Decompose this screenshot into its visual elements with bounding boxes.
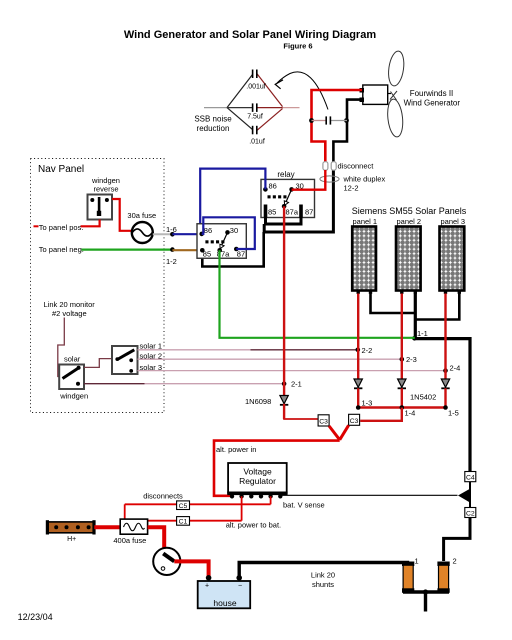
V sense junction triangle (458, 489, 470, 502)
svg-text:house: house (213, 598, 236, 608)
relay U1 coil dashes (268, 195, 287, 198)
white duplex ellipse (320, 176, 339, 182)
wire: junction down to relay2 loop (202, 232, 263, 267)
wire: windgen row to 2-1 (84, 383, 145, 385)
svg-text:.001uf: .001uf (246, 84, 266, 91)
wire: panel3 red down (444, 294, 446, 381)
wire: relay2 86-87 blue jumper (202, 217, 255, 249)
svg-text:85: 85 (268, 208, 276, 217)
wire: panel2 red down (401, 294, 403, 381)
svg-text:disconnect: disconnect (338, 162, 375, 171)
wire: solar1 row to 2-2 (138, 349, 251, 351)
wire: 1N6098 to C3a (284, 407, 317, 419)
wire: solar2 row to 2-3 (138, 358, 402, 360)
relay U1 box (261, 179, 315, 217)
svg-text:Fourwinds II: Fourwinds II (410, 89, 454, 98)
node 1-6 (170, 232, 175, 237)
propeller blade upper (387, 50, 406, 87)
svg-text:1: 1 (415, 557, 419, 566)
svg-text:To panel neg.: To panel neg. (39, 245, 84, 254)
wire: C5 row down to fuse left (124, 504, 126, 520)
svg-text:Regulator: Regulator (239, 476, 276, 486)
svg-text:windgen: windgen (59, 392, 88, 401)
svg-text:Wind Generator and Solar Panel: Wind Generator and Solar Panel Wiring Di… (124, 29, 376, 41)
regulator bottom bar (227, 492, 287, 496)
diode D1 1N6098 (280, 396, 288, 420)
wire: C3a diagonal to V junction (329, 426, 340, 440)
wire: house - to shunt1 (thick black) (239, 563, 407, 578)
relay U2 switch arm (222, 232, 228, 245)
relay U2 coil dashes (205, 240, 224, 243)
diode D3 (398, 379, 406, 408)
svg-text:alt. power in: alt. power in (216, 445, 256, 454)
wire: alt power in row (214, 441, 340, 496)
wire: relay U1 85-87 loop (black) (266, 217, 302, 224)
noise capacitor leads (312, 120, 327, 122)
svg-text:bat. V sense: bat. V sense (283, 501, 325, 510)
wire: selector to solar selector (dark red) (84, 359, 112, 368)
svg-text:SSB noise: SSB noise (194, 115, 232, 124)
hub line (388, 93, 391, 95)
wire: relay1 86 blue loop to relay2 (200, 169, 265, 234)
diode D4 (441, 379, 449, 408)
svg-text:panel 1: panel 1 (353, 217, 378, 226)
svg-text:2-4: 2-4 (450, 364, 461, 373)
wire: switch to 30a fuse (red) (112, 199, 132, 231)
svg-text:30: 30 (230, 226, 238, 235)
wire: diode output row (358, 406, 445, 408)
node shunt bottom (423, 589, 428, 594)
relay U2 pin 86 (199, 232, 204, 237)
node 2-1 (282, 381, 287, 386)
svg-text:−: − (238, 583, 242, 590)
svg-text:C2: C2 (466, 511, 475, 518)
svg-text:Link 20: Link 20 (311, 571, 335, 580)
generator pin + (360, 88, 365, 93)
noise capacitor bars (326, 116, 330, 124)
svg-text:solar: solar (64, 355, 81, 364)
wire: switch to house battery + (thick red) (174, 561, 208, 576)
node capacitor left (309, 118, 314, 123)
svg-text:reduction: reduction (197, 124, 230, 133)
red tick left of To panel pos (34, 225, 39, 227)
wire: to panel neg (green) (82, 249, 173, 251)
svg-text:C3: C3 (350, 418, 359, 425)
relay U1 pin 87a (282, 204, 287, 209)
connector C4 (465, 472, 476, 482)
connector C5 (177, 501, 190, 510)
wire: 1-2 to relay2 85 (brown) (172, 249, 202, 251)
svg-text:Link 20 monitor: Link 20 monitor (44, 300, 96, 309)
svg-text:#2 voltage: #2 voltage (52, 309, 87, 318)
svg-text:To panel pos.: To panel pos. (39, 223, 84, 232)
wire: disconnect red down to relay1 30 (292, 170, 326, 190)
wire: fuse to battery switch (thick red) (148, 527, 165, 554)
nav panel dashed border (31, 159, 165, 413)
wire: panel2 black down to 1-1 (414, 294, 417, 339)
wire: monitor to selector (dark red) (58, 318, 65, 377)
svg-text:C1: C1 (179, 519, 188, 526)
wire: fuse to 1-6 node (gray) (153, 233, 173, 235)
svg-text:2: 2 (453, 557, 457, 566)
solar panel 3 (440, 227, 465, 291)
node 1-3 (356, 405, 361, 410)
wire: panel1 black to panel2 black (371, 294, 416, 314)
SSB mid wire black (227, 107, 252, 109)
400a fuse (120, 519, 147, 534)
relay U1 pin 85 stub (264, 205, 268, 218)
SSB diamond edges (227, 75, 253, 108)
wire: relay1 87a red down (283, 206, 285, 396)
svg-text:1N5402: 1N5402 (410, 393, 436, 402)
relay U1 pin 30 (289, 187, 294, 192)
node 1-5 (443, 405, 448, 410)
node 2-2 (356, 348, 361, 353)
wire: green negative bus (220, 250, 415, 337)
node green-black junction (412, 336, 417, 341)
svg-text:relay: relay (277, 170, 294, 179)
svg-text:C3: C3 (319, 419, 328, 426)
svg-text:2-3: 2-3 (406, 355, 417, 364)
svg-text:Figure 6: Figure 6 (283, 42, 312, 51)
house battery - terminal (236, 575, 242, 581)
relay U2 pin 85 (200, 248, 205, 253)
node capacitor right (344, 118, 349, 123)
svg-text:Siemens SM55 Solar Panels: Siemens SM55 Solar Panels (352, 206, 467, 216)
svg-text:87: 87 (305, 208, 313, 217)
SSB diamond left lead (gray) (204, 107, 227, 109)
svg-text:+: + (205, 583, 209, 590)
svg-text:C4: C4 (466, 475, 475, 482)
wire: C3b diagonal to V junction (340, 425, 349, 440)
busbar H+ (46, 520, 96, 534)
svg-text:86: 86 (204, 226, 212, 235)
svg-text:87a: 87a (286, 208, 299, 217)
disconnect capsule red side (323, 162, 328, 171)
svg-text:7.5uf: 7.5uf (247, 114, 263, 121)
wire: pin5 down to C5 row (270, 496, 272, 504)
regulator pins (230, 494, 283, 498)
hub blade cross (390, 91, 397, 100)
relay U1 switch arm (286, 189, 291, 201)
svg-text:1-5: 1-5 (448, 409, 459, 418)
connector C2 (465, 508, 476, 518)
svg-text:12/23/04: 12/23/04 (18, 612, 53, 622)
connector C3a (318, 415, 329, 426)
svg-text:400a fuse: 400a fuse (113, 536, 146, 545)
capacitor .01uf (253, 126, 257, 135)
relay U1 pin 86 (263, 187, 268, 192)
relay U2 pin labels (203, 226, 245, 259)
svg-text:1-2: 1-2 (166, 257, 177, 266)
voltage regulator box (228, 463, 287, 493)
wire: C1 row (148, 520, 242, 522)
wire: generator black (333, 100, 362, 162)
wind generator body (363, 85, 388, 104)
panel 2 terminals (400, 290, 403, 293)
wire: C4 to C2 (469, 482, 471, 508)
svg-text:panel 3: panel 3 (441, 217, 466, 226)
wire: shunt stub down (424, 592, 427, 612)
svg-text:1N6098: 1N6098 (245, 397, 271, 406)
svg-text:2-1: 2-1 (291, 380, 302, 389)
wire: 1-6 to relay2 86 (blue) (172, 233, 201, 235)
relay U2 pin 87 (234, 247, 239, 252)
node 1-2 (170, 247, 175, 252)
svg-text:Wind Generator: Wind Generator (404, 99, 461, 108)
shunt 1 (402, 562, 414, 593)
30a fuse F1 (132, 222, 153, 243)
wire: busbar to 400a fuse (thick red) (94, 525, 121, 529)
panel 3 terminals (444, 290, 447, 293)
battery switch (153, 548, 180, 575)
svg-text:C5: C5 (179, 503, 188, 510)
wire: 1-4 to C3b (360, 408, 402, 421)
wire: panel1 red down (357, 294, 359, 381)
node 2-4 (443, 368, 448, 373)
svg-text:disconnects: disconnects (143, 492, 183, 501)
svg-text:30a fuse: 30a fuse (127, 211, 156, 220)
svg-text:2-2: 2-2 (362, 346, 373, 355)
svg-text:H+: H+ (67, 536, 76, 543)
wire: solar3 row to 2-4 (138, 370, 446, 372)
relay U2 pin 30 (225, 230, 230, 235)
svg-text:1-6: 1-6 (166, 225, 177, 234)
relay U1 pin labels (268, 182, 313, 217)
svg-text:86: 86 (269, 182, 277, 191)
solar panel 1 (352, 227, 376, 291)
panel 1 terminals (357, 290, 360, 293)
node 2-3 (400, 357, 405, 362)
wire: 1-1 right and down to C4 (thick black) (415, 339, 471, 472)
bat V sense wire (280, 494, 457, 496)
svg-text:reverse: reverse (93, 185, 118, 194)
svg-text:Nav Panel: Nav Panel (38, 164, 84, 175)
solar panel 2 (396, 227, 421, 291)
generator pin - (360, 98, 365, 103)
wire: C5 row (125, 503, 271, 505)
svg-text:Voltage: Voltage (243, 467, 272, 477)
wire: shunt bottoms joined (403, 590, 449, 593)
svg-text:alt. power to bat.: alt. power to bat. (226, 521, 281, 530)
relay U1 pin 87 stub (299, 205, 303, 218)
svg-text:shunts: shunts (312, 580, 334, 589)
relay U2 box (197, 224, 246, 259)
svg-text:1-4: 1-4 (405, 409, 416, 418)
curved arrow to diamond (277, 72, 328, 110)
svg-text:1-3: 1-3 (362, 399, 373, 408)
selector switch solar/windgen (59, 365, 84, 390)
connector C1 (177, 517, 190, 526)
capacitor 7.5uf (253, 103, 257, 112)
svg-text:panel 2: panel 2 (397, 217, 422, 226)
windgen reverse switch S1 (88, 195, 113, 220)
svg-text:12-2: 12-2 (344, 184, 359, 193)
capacitor .001uf (253, 70, 257, 79)
SSB diamond right lead (pink) (283, 107, 300, 109)
svg-text:white duplex: white duplex (343, 175, 386, 184)
svg-text:87: 87 (237, 250, 245, 259)
disconnect capsule black side (331, 162, 336, 171)
node 1-4 (400, 405, 405, 410)
solar bank selector switch (112, 346, 138, 374)
connector C3b (349, 414, 360, 425)
propeller blade lower (386, 98, 404, 137)
house battery + terminal (206, 575, 212, 581)
svg-text:.01uf: .01uf (249, 139, 265, 146)
house battery (198, 581, 251, 608)
svg-text:1-1: 1-1 (417, 329, 428, 338)
wire: pin2 down to C1 row (241, 496, 243, 520)
wire: C2 down to shunt 2 (444, 518, 470, 562)
wire: to panel pos (red) (81, 220, 100, 227)
wire: panel3 black to panel2 black (415, 294, 459, 320)
shunt 2 (437, 562, 449, 593)
diode D2 (354, 379, 362, 408)
wire: generator red (312, 90, 363, 162)
relay U2 pin 87a (217, 248, 222, 253)
wire: loop down to duplex-black junction (264, 170, 333, 232)
